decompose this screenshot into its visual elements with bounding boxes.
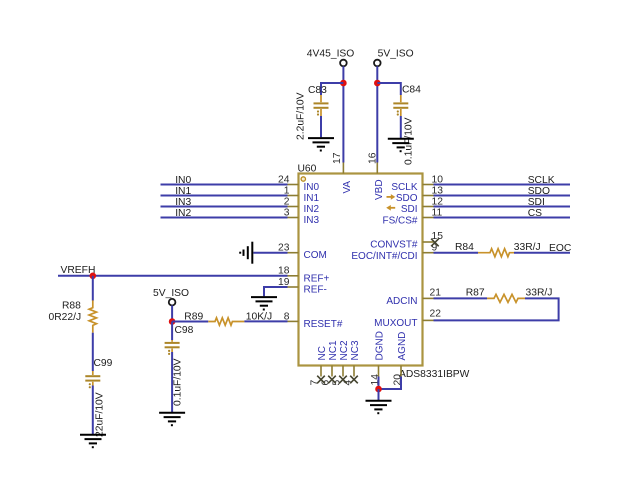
svg-text:REF+: REF+ xyxy=(304,273,330,284)
svg-text:SCLK: SCLK xyxy=(391,182,417,193)
wire C98 to ground xyxy=(171,352,173,412)
svg-text:33R/J: 33R/J xyxy=(526,287,553,298)
ground (sideways, COM pin 23) xyxy=(240,242,252,264)
resistor R87 33R/J xyxy=(466,287,553,302)
capacitor C99 22uF/10V xyxy=(85,358,112,437)
svg-text:ADS8331IBPW: ADS8331IBPW xyxy=(399,369,470,380)
svg-text:VBD: VBD xyxy=(374,179,385,200)
power terminal 4V45_ISO xyxy=(307,49,355,67)
svg-text:R87: R87 xyxy=(466,287,485,298)
wire junction to C84 xyxy=(377,83,401,95)
wire junction to R89 xyxy=(172,321,208,323)
IC U60 pin names (inside) xyxy=(304,179,418,360)
wire net EOC xyxy=(514,243,572,254)
wire net SDO xyxy=(434,186,571,197)
svg-text:22: 22 xyxy=(430,308,442,319)
no-connect X on NC pins xyxy=(317,376,358,384)
svg-text:C98: C98 xyxy=(175,325,194,336)
IC U60 right pin stubs xyxy=(423,185,434,321)
wire junction to ground xyxy=(378,389,380,400)
wire pin 21 to R87 xyxy=(434,297,488,299)
ground (under C99) xyxy=(80,435,106,447)
wire net SCLK xyxy=(434,175,571,186)
svg-text:C99: C99 xyxy=(94,358,113,369)
svg-text:DGND: DGND xyxy=(374,331,385,360)
wire net IN0 xyxy=(161,175,288,186)
svg-text:5V_ISO: 5V_ISO xyxy=(153,288,189,299)
wire DGND down xyxy=(378,377,380,390)
capacitor C83 2.2uF/10V xyxy=(296,85,329,140)
junction 5V_ISO xyxy=(169,318,176,325)
capacitor C84 0.1uF/10V xyxy=(393,85,421,166)
wire R89 to RESET# pin 8 xyxy=(244,320,287,322)
svg-text:NC1: NC1 xyxy=(328,340,339,360)
wire 5V_ISO down to pin 16 xyxy=(376,66,378,162)
wire net IN2 xyxy=(161,208,288,219)
svg-text:22uF/10V: 22uF/10V xyxy=(95,392,106,437)
svg-text:SDO: SDO xyxy=(396,193,418,204)
resistor R84 33R/J xyxy=(455,242,541,257)
ground (DGND/AGND) xyxy=(366,401,392,413)
wire 4V45_ISO down to pin 17 xyxy=(342,66,344,162)
svg-text:IN2: IN2 xyxy=(304,204,320,215)
wire R88 to C99 xyxy=(92,333,94,371)
svg-text:CONVST#: CONVST# xyxy=(370,240,418,251)
IC U60 top pin stubs xyxy=(343,163,377,174)
wire junction to C83 xyxy=(321,83,343,95)
svg-text:18: 18 xyxy=(278,265,290,276)
svg-text:NC3: NC3 xyxy=(350,340,361,360)
IC U60 bottom pin stubs xyxy=(321,366,401,377)
svg-text:SDI: SDI xyxy=(528,197,545,208)
svg-text:VA: VA xyxy=(342,181,353,194)
svg-text:0R22/J: 0R22/J xyxy=(49,312,82,323)
ground (under C98) xyxy=(159,413,185,425)
svg-text:17: 17 xyxy=(332,152,343,164)
svg-text:COM: COM xyxy=(304,250,327,261)
no-connect X on pin 15 xyxy=(431,239,439,247)
svg-text:IN3: IN3 xyxy=(175,197,191,208)
svg-text:IN3: IN3 xyxy=(304,215,320,226)
wire COM to ground xyxy=(253,252,287,254)
svg-text:NC2: NC2 xyxy=(339,340,350,360)
wire net CS xyxy=(434,208,571,219)
ground (under C84) xyxy=(388,139,414,151)
svg-text:R84: R84 xyxy=(455,242,474,253)
wire 5V_ISO down xyxy=(171,305,173,321)
svg-text:C83: C83 xyxy=(308,85,327,96)
svg-text:SDO: SDO xyxy=(528,186,550,197)
svg-text:MUXOUT: MUXOUT xyxy=(374,318,417,329)
svg-text:SDI: SDI xyxy=(401,204,418,215)
svg-text:IN1: IN1 xyxy=(304,193,320,204)
power terminal 5V_ISO (top) xyxy=(374,49,414,67)
IC U60 pin numbers xyxy=(278,152,443,385)
svg-text:EOC: EOC xyxy=(549,243,572,254)
junction 4V45 xyxy=(340,80,347,87)
svg-text:C84: C84 xyxy=(402,85,421,96)
svg-text:IN1: IN1 xyxy=(175,186,191,197)
wire C84 to ground xyxy=(400,116,402,138)
svg-text:4V45_ISO: 4V45_ISO xyxy=(307,49,355,60)
svg-text:R88: R88 xyxy=(62,301,81,312)
resistor R88 0R22/J xyxy=(49,300,97,332)
svg-text:SCLK: SCLK xyxy=(528,175,555,186)
svg-text:0.1uF/10V: 0.1uF/10V xyxy=(173,358,184,406)
svg-text:CS: CS xyxy=(528,208,542,219)
ground (REF- pin 19) xyxy=(251,297,277,309)
wire net SDI xyxy=(434,197,571,208)
wire pin 9 to R84 xyxy=(434,252,479,254)
wire VREFH junction down to R88 xyxy=(92,276,94,301)
arrow into SDO xyxy=(387,194,396,200)
svg-text:REF-: REF- xyxy=(304,285,327,296)
svg-text:FS/CS#: FS/CS# xyxy=(382,216,417,227)
wire net IN3 xyxy=(161,197,288,208)
power terminal 5V_ISO (left) xyxy=(153,288,189,306)
junction VREFH xyxy=(90,273,97,280)
svg-text:RESET#: RESET# xyxy=(304,319,343,330)
svg-text:IN0: IN0 xyxy=(304,182,320,193)
wire C83 to ground xyxy=(320,116,322,137)
svg-text:NC: NC xyxy=(317,346,328,360)
capacitor C98 0.1uF/10V xyxy=(165,325,194,406)
wire C99 to ground xyxy=(92,386,94,435)
IC U60 body xyxy=(298,164,470,381)
ground (under C83) xyxy=(308,138,334,150)
arrow out of SDI xyxy=(386,205,395,211)
wire AGND to DGND xyxy=(379,377,402,390)
svg-text:33R/J: 33R/J xyxy=(514,242,541,253)
svg-text:21: 21 xyxy=(430,287,442,298)
svg-text:IN0: IN0 xyxy=(175,175,191,186)
svg-text:23: 23 xyxy=(278,242,290,253)
svg-text:0.1uF/10V: 0.1uF/10V xyxy=(404,117,415,165)
wire R87 loop to MUXOUT pin 22 xyxy=(434,298,559,320)
wire net IN1 xyxy=(161,186,288,197)
svg-text:AGND: AGND xyxy=(397,332,408,361)
svg-text:U60: U60 xyxy=(298,164,317,175)
svg-text:2.2uF/10V: 2.2uF/10V xyxy=(296,92,307,140)
resistor R89 10K/J xyxy=(184,312,272,326)
svg-text:R89: R89 xyxy=(184,312,203,323)
wire REF- to ground xyxy=(264,287,288,296)
svg-text:EOC/INT#/CDI: EOC/INT#/CDI xyxy=(351,251,417,262)
svg-text:ADCIN: ADCIN xyxy=(386,296,417,307)
wire junction down to C98 xyxy=(171,322,173,341)
IC U60 left pin stubs xyxy=(288,185,299,322)
junction 5V top xyxy=(374,80,381,87)
junction DGND/AGND xyxy=(375,386,382,393)
node VREFH wire xyxy=(58,265,288,276)
svg-text:IN2: IN2 xyxy=(175,208,191,219)
svg-text:5V_ISO: 5V_ISO xyxy=(378,49,414,60)
